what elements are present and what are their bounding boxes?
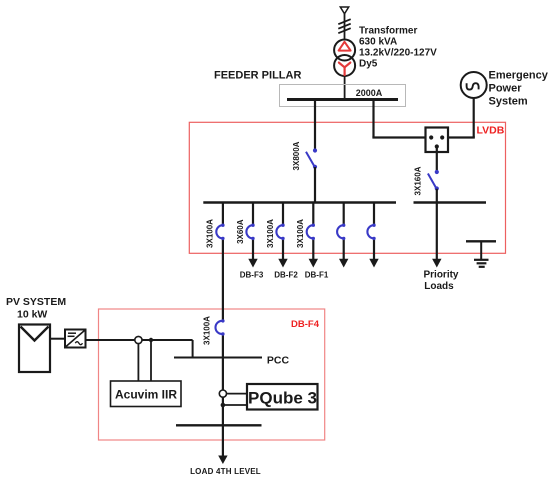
- svg-text:FEEDER PILLAR: FEEDER PILLAR: [214, 70, 301, 82]
- svg-text:PV SYSTEM: PV SYSTEM: [6, 296, 66, 308]
- svg-text:LVDB: LVDB: [477, 125, 505, 137]
- svg-text:DB-F4: DB-F4: [291, 319, 320, 330]
- svg-text:DB-F1: DB-F1: [305, 271, 329, 280]
- svg-text:630 kVA: 630 kVA: [359, 37, 397, 48]
- svg-text:System: System: [489, 96, 528, 108]
- svg-text:3X100A: 3X100A: [206, 219, 215, 248]
- svg-text:Acuvim IIR: Acuvim IIR: [115, 388, 177, 402]
- svg-text:3X100A: 3X100A: [266, 219, 275, 248]
- svg-text:DB-F2: DB-F2: [274, 271, 298, 280]
- svg-text:13.2kV/220-127V: 13.2kV/220-127V: [359, 48, 437, 59]
- svg-text:3X800A: 3X800A: [292, 141, 301, 170]
- svg-text:Transformer: Transformer: [359, 26, 417, 37]
- svg-text:Emergency: Emergency: [489, 70, 549, 82]
- svg-text:DB-F3: DB-F3: [240, 271, 264, 280]
- svg-text:Priority: Priority: [423, 270, 458, 281]
- svg-text:3X100A: 3X100A: [203, 316, 212, 345]
- svg-text:Loads: Loads: [424, 281, 454, 292]
- svg-text:3X160A: 3X160A: [414, 166, 423, 195]
- svg-text:3X60A: 3X60A: [236, 219, 245, 244]
- svg-text:Power: Power: [489, 83, 523, 95]
- svg-text:LOAD 4TH LEVEL: LOAD 4TH LEVEL: [190, 467, 261, 476]
- svg-text:PCC: PCC: [267, 355, 290, 367]
- svg-text:PQube 3: PQube 3: [248, 389, 317, 408]
- svg-text:2000A: 2000A: [356, 88, 383, 98]
- svg-text:10 kW: 10 kW: [17, 309, 47, 321]
- svg-text:Dy5: Dy5: [359, 59, 378, 70]
- svg-text:3X100A: 3X100A: [296, 219, 305, 248]
